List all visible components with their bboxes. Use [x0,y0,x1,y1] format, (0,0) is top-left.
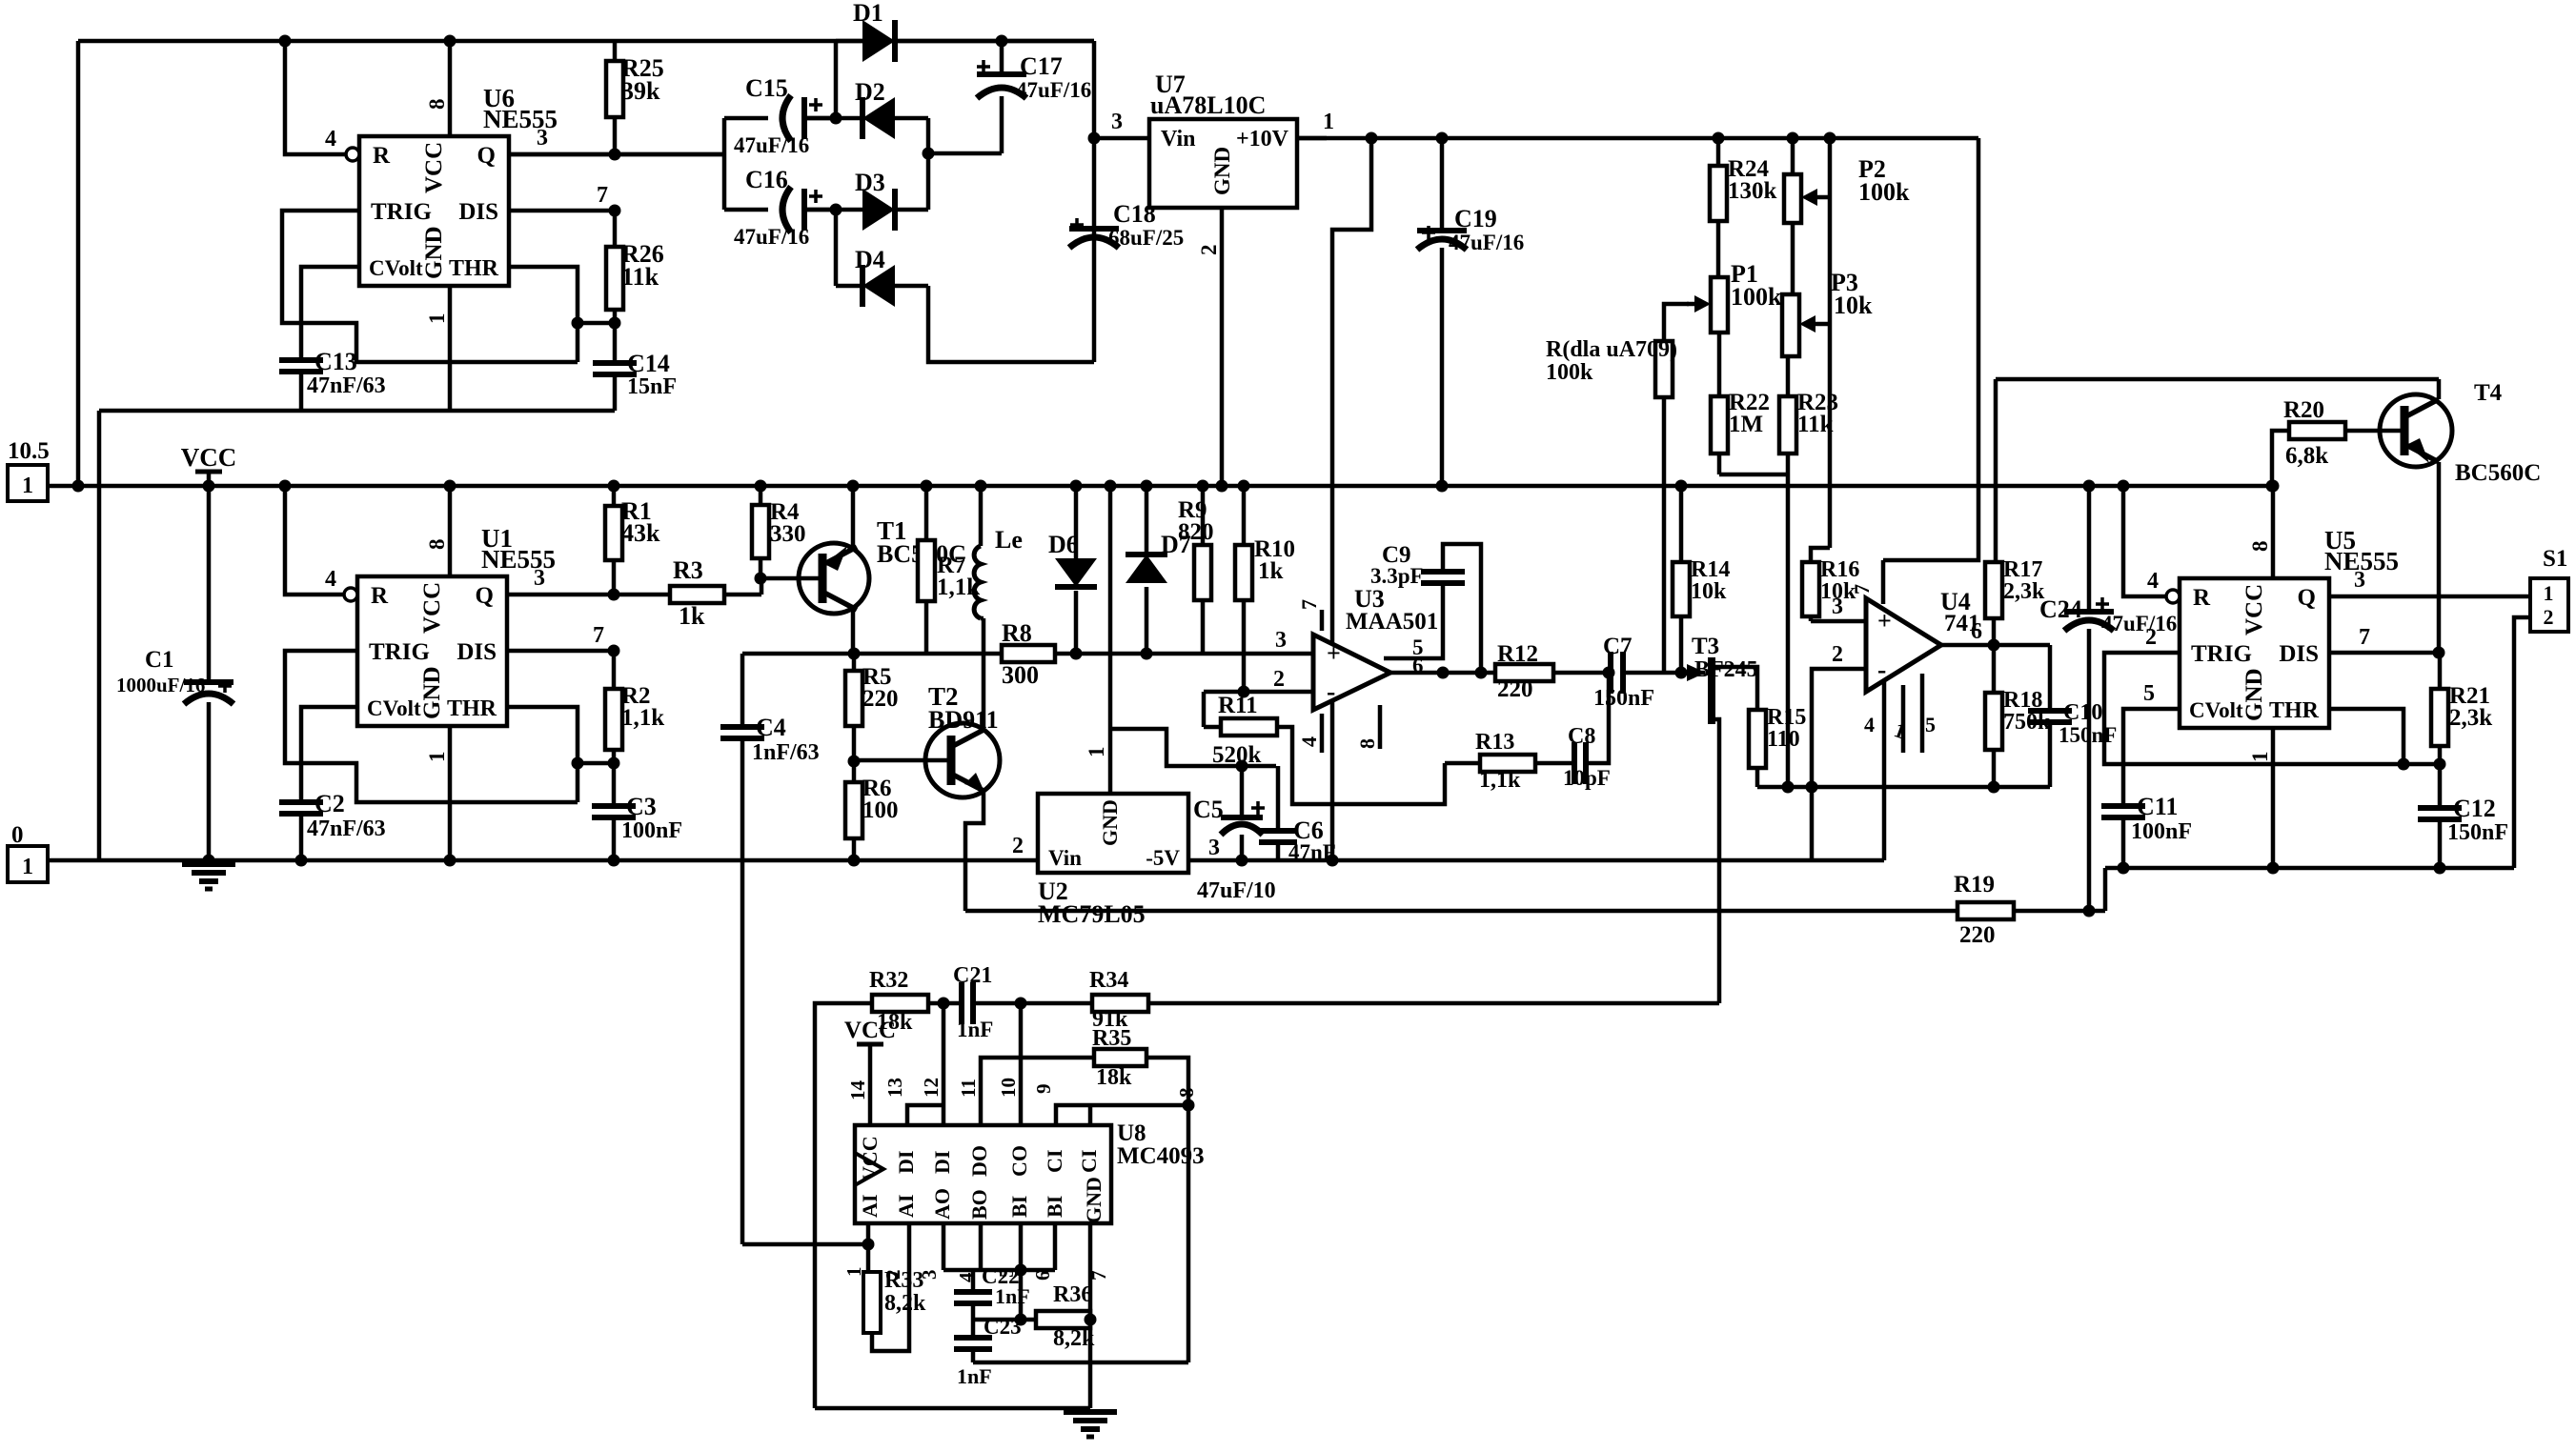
transistor T1 BC560C [755,516,966,614]
svg-text:THR: THR [447,696,497,721]
svg-text:4: 4 [1297,736,1321,747]
svg-text:Vin: Vin [1048,846,1082,870]
svg-text:330: 330 [770,521,806,547]
svg-text:CI: CI [1077,1150,1101,1173]
svg-text:47nF: 47nF [1288,840,1336,864]
svg-text:C24: C24 [2039,595,2082,623]
wire R11 to fb [1277,727,1445,804]
resistor R36 8.2k [1036,1282,1097,1351]
ground symbol U8 [1064,1412,1117,1437]
capacitor C9 3.3pF [1370,542,1481,673]
svg-text:+10V: +10V [1236,127,1289,151]
wire U6 pin2 loop [282,211,578,362]
svg-text:GND: GND [419,666,445,719]
transistor T3 BF245 [1675,634,1758,724]
svg-text:3: 3 [1832,595,1843,619]
svg-text:AO: AO [930,1188,954,1220]
inductor Le [974,480,1023,619]
wire R23 down [1786,474,1791,787]
wire S1 pin2 [2514,617,2530,868]
svg-text:-5V: -5V [1146,846,1180,870]
wire D4 branch [830,204,842,287]
svg-text:GND: GND [1098,799,1122,846]
resistor R4 330 [752,480,806,579]
svg-text:8: 8 [1355,738,1379,749]
labels U8 top pins [846,1078,1198,1100]
wire U5 pin1 [2248,728,2280,875]
svg-text:10k: 10k [1834,292,1873,319]
svg-text:150nF: 150nF [1593,686,1654,711]
svg-text:Vin: Vin [1161,127,1195,151]
wire U7 pin2 gnd [1197,208,1228,493]
svg-text:110: 110 [1767,727,1800,752]
svg-text:BC560C: BC560C [2455,460,2541,486]
resistor R5 220 [845,654,899,761]
power VCC at U8 [844,1018,896,1125]
resistor R22 1M [1711,333,1770,474]
diode D6 [1048,480,1097,660]
wire main node line [742,652,1313,656]
capacitor C24 47uF/16 [2039,480,2177,918]
resistor R3 1k [670,556,761,630]
svg-text:100k: 100k [1858,178,1910,206]
wire R32 feed left [815,1003,872,1408]
wire U1 pin6 loop [507,707,584,802]
wire U8 bottom line [815,1406,1090,1411]
capacitor C3 100nF [592,763,682,867]
wire top supply [78,39,1094,44]
svg-text:AI: AI [894,1195,918,1218]
label U2 pin3 [1208,836,1220,860]
capacitor C6 47nF [1259,766,1336,864]
capacitor C4 1nF/63 [720,654,820,1244]
svg-text:GND: GND [1210,147,1234,195]
svg-text:C1: C1 [145,647,174,673]
wire T1 emitter [847,480,860,548]
svg-text:1,1k: 1,1k [1479,768,1521,793]
label U2 pin2 [1012,834,1024,858]
svg-text:BO: BO [967,1189,991,1220]
wire U6 pin6 loop [509,267,584,362]
svg-text:1: 1 [22,474,33,498]
capacitor C16 47uF/16 [724,166,836,249]
svg-text:150nF: 150nF [2447,820,2508,845]
wire P1 wiper [1664,304,1689,341]
resistor Rdla 100k [1546,337,1677,673]
wire 0V rail left [47,858,1884,863]
wire VCC rail [47,484,2273,489]
svg-text:0: 0 [11,822,24,848]
svg-text:DI: DI [930,1151,954,1174]
svg-text:CO: CO [1007,1145,1031,1177]
svg-text:43k: 43k [621,519,660,547]
wire U8 pin1 [866,1223,871,1244]
svg-text:DIS: DIS [456,639,497,665]
wire R22-R23 join [1719,473,1788,477]
wire R32-C21 [928,998,962,1010]
svg-text:11: 11 [957,1079,980,1098]
resistor R26 11k [606,211,664,323]
svg-text:C14: C14 [627,350,670,377]
svg-text:C7: C7 [1603,634,1633,659]
capacitor C17 47uF/16 [977,35,1091,154]
svg-text:7: 7 [2359,625,2370,650]
wire U1 pin7 [507,623,620,657]
svg-text:R35: R35 [1092,1026,1131,1051]
svg-text:2: 2 [1832,642,1843,667]
svg-text:8: 8 [425,539,449,551]
wire T3 source long [1717,721,1722,1003]
svg-text:1: 1 [2248,752,2272,763]
svg-text:100k: 100k [1731,283,1782,311]
svg-text:2,3k: 2,3k [2449,705,2492,731]
diode D3 [802,169,928,231]
svg-text:5: 5 [2143,681,2155,706]
resistor R14 10k [1673,480,1730,674]
svg-text:47uF/10: 47uF/10 [1197,878,1276,903]
svg-text:R: R [371,583,389,609]
capacitor C14 15nF [593,323,677,411]
svg-text:Le: Le [995,526,1023,554]
capacitor C1 1000uF/16 [116,486,233,867]
wire T4 collector line [1996,377,2439,382]
wire T1 collector [848,610,861,660]
svg-text:4: 4 [2147,569,2159,594]
svg-text:10k: 10k [1691,579,1727,604]
wire pump right vertical [923,118,935,210]
wire U4 pin3 [1811,595,1866,621]
svg-text:300: 300 [1002,661,1039,689]
wire U6 pin3 out [509,126,724,161]
svg-text:3: 3 [534,566,545,591]
svg-text:+: + [1327,639,1341,667]
svg-text:C23: C23 [984,1315,1022,1339]
connector S1 [2530,546,2568,632]
svg-text:6,8k: 6,8k [2285,443,2328,469]
resistor R19 220 [1954,872,2014,948]
svg-text:MAA501: MAA501 [1346,609,1438,635]
wire T4 emitter down [2437,462,2442,653]
svg-text:220: 220 [1959,922,1996,948]
svg-text:R11: R11 [1218,693,1258,718]
resistor R21 2.3k [2431,653,2492,764]
svg-text:DI: DI [894,1151,918,1174]
svg-text:1M: 1M [1729,412,1763,437]
capacitor C18 68uF/25 [1069,200,1184,250]
wire U5 pin8 [2248,480,2280,579]
diode D7 [1126,480,1191,660]
wire U7 pin1 out [1297,110,1334,138]
capacitor C10 150nF [2028,645,2117,787]
resistor R11 520k [1204,692,1277,768]
svg-text:C12: C12 [2453,795,2496,822]
capacitor C12 150nF [2418,764,2508,875]
svg-text:GND: GND [421,226,447,279]
svg-text:BF245: BF245 [1694,657,1758,682]
capacitor C7 150nF [1593,634,1681,711]
svg-text:11k: 11k [621,263,659,291]
svg-text:R34: R34 [1089,968,1128,993]
wire U5 pin3 out [2329,568,2530,596]
resistor R16 10k [1802,548,1859,621]
svg-text:CVolt: CVolt [2189,698,2243,722]
resistor R1 43k [605,480,660,595]
wire R12-C7 [1553,671,1611,676]
svg-text:R32: R32 [869,968,908,993]
svg-text:BI: BI [1007,1196,1031,1218]
capacitor C2 47nF/63 [279,790,386,867]
svg-text:Q: Q [477,143,496,169]
resistor R8 300 [1002,619,1055,689]
svg-text:47uF/16: 47uF/16 [1449,231,1524,254]
svg-text:VCC: VCC [844,1018,896,1043]
svg-text:47nF/63: 47nF/63 [307,373,386,398]
svg-text:100k: 100k [1546,360,1593,385]
transistor T2 BD911 [854,682,1000,797]
wire U1 pin4 [279,480,346,595]
svg-text:1000uF/16: 1000uF/16 [116,674,205,696]
wire pins12-13 jog [907,1003,943,1125]
diode D1 [836,0,1094,62]
op U8 MC4093 [855,1120,1205,1223]
svg-text:2: 2 [1012,834,1024,858]
svg-text:U8: U8 [1117,1120,1146,1146]
capacitor C13 47nF/63 [279,348,386,411]
wire U5 pin4 [2118,480,2168,597]
resistor R10 1k [1235,480,1295,693]
wire P2 wiper [1825,195,1830,200]
wire C5C6 top [1110,729,1276,773]
wire R35 line [981,1058,1094,1125]
svg-text:130k: 130k [1728,178,1777,204]
svg-text:2: 2 [2145,625,2157,650]
capacitor C8 10pF [1563,667,1615,791]
wire U6 bottom [99,409,615,413]
wire U5 pin5 [2123,681,2180,806]
op U6 NE555 [346,84,558,286]
wire U6 pin1 [425,286,450,411]
svg-text:TRIG: TRIG [2191,641,2252,667]
svg-text:C15: C15 [745,74,788,102]
svg-text:3: 3 [1111,110,1123,134]
svg-text:T4: T4 [2474,380,2503,406]
svg-text:10: 10 [997,1078,1020,1098]
svg-text:3: 3 [2354,568,2365,593]
svg-text:4: 4 [325,127,336,151]
svg-text:18k: 18k [1096,1065,1132,1090]
connector 10.5 input [8,438,50,501]
svg-text:100nF: 100nF [621,818,682,843]
capacitor C21 1nF [953,963,1092,1041]
svg-text:R12: R12 [1497,641,1538,667]
wire T2 emitter [965,792,984,911]
svg-text:8: 8 [1175,1088,1198,1099]
svg-text:Q: Q [2298,585,2316,611]
resistor R34 91k [1089,968,1148,1032]
resistor R12 220 [1495,641,1553,702]
svg-text:1nF: 1nF [995,1284,1030,1308]
svg-text:TRIG: TRIG [371,199,432,225]
wire C4 to U8 [742,1239,875,1251]
svg-text:220: 220 [1497,676,1533,702]
svg-text:1nF: 1nF [957,1364,992,1388]
svg-text:8: 8 [425,99,449,111]
wire left vertical from top [72,41,85,493]
op U1 NE555 [344,524,556,726]
svg-text:C17: C17 [1020,52,1063,80]
svg-text:D3: D3 [855,169,885,196]
op-amp U3 MAA501 [1273,585,1438,753]
svg-text:C16: C16 [745,166,788,193]
svg-text:TRIG: TRIG [369,639,430,665]
wire R19 to 0V jog [2103,868,2108,911]
wire U6 pin8 [425,35,456,137]
capacitor C5 47uF/10 [1193,766,1276,903]
wire U1 pin5 [301,707,357,802]
svg-text:47uF/16: 47uF/16 [734,133,809,157]
svg-text:100nF: 100nF [2131,819,2192,844]
wire wiper bus [1824,132,1836,549]
svg-text:CVolt: CVolt [367,696,421,720]
svg-text:14: 14 [846,1080,869,1101]
resistor R24 130k [1710,132,1777,278]
svg-text:MC79L05: MC79L05 [1038,900,1146,928]
svg-text:AI: AI [858,1195,882,1218]
svg-text:DO: DO [967,1145,991,1177]
svg-text:2: 2 [2544,605,2554,629]
svg-text:3: 3 [537,126,548,151]
wire U3 pin2 line [1204,686,1313,698]
wire U6 pin4 reset [279,35,348,155]
svg-text:1: 1 [425,313,449,325]
svg-text:Q: Q [476,583,494,609]
resistor R7 1.1k [918,480,980,655]
svg-text:D1: D1 [853,0,883,27]
svg-text:C21: C21 [953,963,992,988]
svg-text:5: 5 [1925,713,1936,736]
svg-text:47uF/16: 47uF/16 [2101,612,2177,635]
svg-text:100: 100 [862,797,899,823]
svg-text:39k: 39k [621,77,660,105]
transistor T4 BC560C [2345,380,2541,486]
svg-text:C4: C4 [756,714,786,741]
wire U6 pin7 [509,183,621,217]
potentiometer P2 100k [1784,132,1910,224]
svg-text:47nF/63: 47nF/63 [307,817,386,841]
svg-text:4: 4 [1864,713,1875,736]
wire R34 to T3 [1148,1001,1719,1006]
svg-text:2: 2 [1273,667,1285,692]
wire U6 thr-r26 [578,317,621,330]
op U5 NE555 [2166,526,2399,728]
svg-text:820: 820 [1178,519,1214,545]
svg-text:THR: THR [449,256,499,281]
svg-text:6: 6 [1971,619,1982,644]
svg-text:+: + [1877,607,1892,635]
resistor R32 18k [869,968,928,1035]
svg-text:8: 8 [2248,541,2272,553]
svg-text:220: 220 [862,686,899,712]
svg-text:7: 7 [1850,584,1874,595]
wire pin10 up [1019,1003,1024,1125]
wire U4 out [1941,619,2050,652]
svg-text:VCC: VCC [2241,584,2267,635]
resistor R9 820 [1178,480,1214,655]
svg-text:CVolt: CVolt [369,256,423,280]
wire R3 to base [760,578,764,595]
wire C23 jog [973,1361,1188,1365]
resistor R18 750k [1985,645,2051,787]
svg-text:15nF: 15nF [627,374,677,399]
resistor R23 11k [1779,356,1838,474]
svg-text:-: - [1327,677,1335,707]
svg-text:1,1k: 1,1k [621,705,664,731]
wire pins3-6 jog [943,1223,1055,1277]
wire pump mid tap [928,151,1002,156]
svg-text:VCC: VCC [419,582,445,634]
wire U1 pin1 [425,726,456,867]
svg-text:1: 1 [2544,581,2554,605]
svg-text:11k: 11k [1797,412,1834,437]
wire U5 pin2 loop [2104,625,2404,764]
svg-text:BD911: BD911 [928,706,999,734]
svg-text:3.3pF: 3.3pF [1370,564,1424,588]
wire U6 ground return [97,411,102,860]
wire U2 pin1 gnd [1085,480,1117,795]
svg-text:R36: R36 [1053,1282,1092,1307]
resistor R13 1.1k [1445,730,1574,793]
wire +10V to bottom [1327,132,1378,867]
svg-text:R13: R13 [1475,730,1514,755]
svg-text:D6: D6 [1048,531,1079,558]
svg-text:R33: R33 [884,1268,923,1293]
resistor R20 6.8k [2266,397,2346,493]
resistor R6 100 [845,756,899,867]
svg-text:GND: GND [2241,668,2267,721]
capacitor C19 47uF/16 [1417,132,1524,493]
svg-text:VCC: VCC [181,443,237,472]
svg-text:2: 2 [1197,245,1221,256]
svg-text:R20: R20 [2283,397,2324,423]
svg-text:1k: 1k [1258,558,1284,584]
wire pump left vertical [722,118,727,210]
svg-text:13: 13 [883,1078,906,1098]
svg-text:7: 7 [597,183,608,208]
capacitor C15 47uF/16 [724,74,836,157]
svg-text:R: R [2193,585,2211,611]
capacitor C23 1nF [954,1315,1022,1388]
svg-text:68uF/25: 68uF/25 [1108,226,1184,250]
svg-text:C10: C10 [2063,700,2102,725]
svg-text:3: 3 [1208,836,1220,860]
op U7 uA78L10C [1149,71,1297,208]
svg-text:D4: D4 [855,246,885,273]
resistor R17 2.3k [1985,379,2045,645]
op U2 MC79L05 [1038,794,1188,928]
ground symbol at C1 [182,864,235,889]
wire U1 pin8 [425,480,456,577]
svg-text:1k: 1k [679,602,705,630]
wire U8 pin7 gnd [1088,1223,1093,1408]
wire U4 pin7 supply [1883,138,1978,560]
svg-text:BI: BI [1043,1196,1066,1218]
wire C22 bottom line [973,1270,1036,1326]
wire U5 pin7 [2329,625,2445,659]
svg-text:47uF/16: 47uF/16 [1016,78,1091,102]
wire D1 branch [830,41,842,125]
svg-text:C5: C5 [1193,796,1224,823]
svg-text:12: 12 [920,1078,943,1098]
